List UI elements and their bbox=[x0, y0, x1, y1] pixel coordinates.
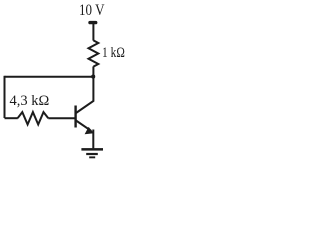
wire emitter to ground bbox=[92, 130, 94, 149]
wire supply to R1 bbox=[92, 23, 94, 41]
ground bar 3 bbox=[89, 156, 95, 158]
supply terminal 10 V bbox=[88, 21, 97, 24]
emitter diagonal of Q1 bbox=[76, 121, 91, 131]
ground bar 1 bbox=[81, 148, 103, 151]
wire feedback left vertical bbox=[4, 76, 6, 118]
node junction dot bbox=[91, 75, 95, 79]
wire into R2 bbox=[5, 117, 18, 119]
wire R2 to base bbox=[48, 117, 74, 119]
transistor Q1 base bar bbox=[74, 106, 76, 128]
wire collector: junction down and diagonal to bar bbox=[76, 76, 93, 113]
ground bar 2 bbox=[86, 153, 98, 155]
label 10 V bbox=[79, 2, 104, 20]
wire feedback top horizontal bbox=[5, 76, 94, 78]
resistor R2 4,3 kOhm (horizontal zigzag) bbox=[18, 112, 49, 124]
resistor R1 1 kOhm (vertical zigzag) bbox=[89, 40, 99, 66]
wire R1 bottom to junction bbox=[92, 66, 94, 77]
emitter arrowhead bbox=[85, 127, 94, 134]
label 1 kOhm bbox=[102, 45, 125, 62]
label 4,3 kOhm bbox=[10, 93, 50, 110]
